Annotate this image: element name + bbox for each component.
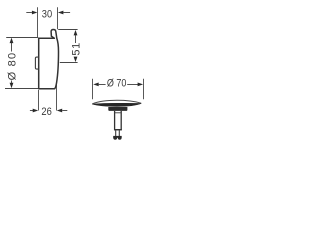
plug cap rim (dark band) [92,103,141,106]
svg-text:51: 51 [70,42,82,55]
dimension 26: right arrow tail [62,110,67,112]
dimension O70: right arrowhead [138,83,144,87]
plug foot left lobe [113,136,117,140]
mounting tab on back edge [35,57,39,69]
plug foot top bar [113,136,122,138]
dimension O70: left shaft [99,84,106,86]
dimension 51: up arrowhead [74,30,78,36]
dimension 26: right arrowhead [57,109,63,113]
dimension 30: left extension line [37,7,39,37]
escutcheon body outline [39,30,59,89]
plug stem outline [115,111,122,130]
dimension O80: upper shaft [11,43,13,52]
plug stem groove line [115,112,122,114]
dimension 51: upper shaft [75,35,77,43]
dimension 30: right extension line [57,7,59,29]
dimension 26: left arrow tail [30,110,33,112]
dimension 51: down arrowhead [74,57,78,63]
dimension O70: right shaft [127,84,138,86]
dimension O80: bottom extension line [5,88,38,90]
dimension O70: left arrowhead [93,83,99,87]
dimension O80: top extension line [6,37,38,39]
dimension 51: bottom extension line [60,62,78,64]
dimension O80: lower shaft [11,81,13,84]
plug threaded tip [116,130,120,136]
plug foot right lobe [118,136,122,140]
dimension 26: left arrowhead [33,109,39,113]
svg-text:30: 30 [42,9,53,21]
dimension 30: right arrowhead [58,11,64,15]
svg-text:Ø 80: Ø 80 [6,52,18,81]
dimension 30: left arrowhead [32,11,38,15]
plug stem bottom edge [114,129,122,131]
plug neck under cap [108,107,127,111]
dimension O80: up arrowhead [10,38,14,44]
dimension 30: right arrow tail [63,12,70,14]
plug cap top arc [92,100,141,104]
dimension 30: left arrow tail [26,12,32,14]
dimension O80: down arrowhead [10,83,14,89]
dimension O70: right extension line [143,79,145,100]
dimension 26: right extension line [56,85,58,111]
dimension 26: left extension line [38,90,40,111]
svg-text:26: 26 [41,106,52,118]
dimension O70: left extension line [92,79,94,100]
dimension 51: top extension line [58,29,77,31]
svg-text:Ø 70: Ø 70 [107,78,127,90]
